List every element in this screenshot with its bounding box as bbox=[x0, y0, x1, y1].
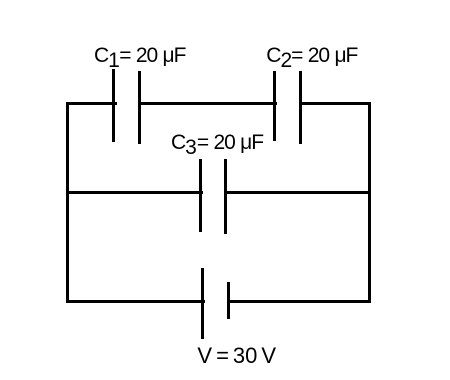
battery V short plate bbox=[227, 282, 230, 319]
battery V long plate bbox=[201, 268, 204, 339]
capacitor C2 right plate bbox=[299, 71, 302, 144]
wire: middle rail, left segment to C3 bbox=[66, 191, 203, 194]
capacitor C1 left plate bbox=[112, 69, 115, 142]
wire: bottom rail, left segment to battery bbox=[66, 300, 205, 303]
capacitor C1 right plate bbox=[138, 71, 141, 144]
label C3 = 20 uF bbox=[171, 132, 263, 153]
wire: middle rail, segment from C3 to right side bbox=[227, 191, 371, 194]
capacitor C3 right plate bbox=[224, 159, 227, 234]
capacitor C3 left plate bbox=[199, 159, 202, 232]
wire: top rail, segment between C1 and C2 bbox=[141, 102, 277, 105]
label V = 30 V bbox=[197, 345, 276, 367]
label C1 = 20 uF bbox=[94, 45, 185, 66]
capacitor C2 left plate bbox=[273, 71, 276, 141]
wire: left vertical side bbox=[66, 102, 69, 303]
label C2 = 20 uF bbox=[266, 45, 357, 66]
wire: top rail, left segment to C1 bbox=[66, 102, 117, 105]
wire: top rail, segment from C2 to right side bbox=[302, 102, 371, 105]
wire: bottom rail, segment from battery to right side bbox=[230, 300, 371, 303]
wire: right vertical side bbox=[368, 102, 371, 303]
